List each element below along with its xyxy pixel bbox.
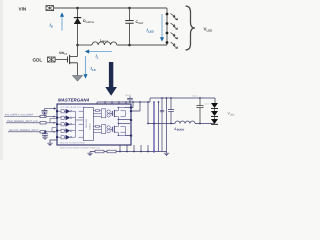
svg-text:PWM_DIMMING_INPUT_HIN: PWM_DIMMING_INPUT_HIN	[7, 120, 38, 123]
wire inductor to LEDs	[195, 123, 214, 125]
output LED D5	[211, 103, 218, 111]
cap C6 plates	[160, 110, 164, 112]
vertical net x140	[131, 102, 140, 111]
ground C1	[42, 114, 47, 116]
svg-text:GND LIN SD SENSE PGN: GND LIN SD SENSE PGND	[60, 142, 86, 145]
rail top	[150, 97, 215, 99]
ground IC left bottom	[47, 140, 57, 146]
capacitor COUT	[125, 8, 143, 45]
svg-text:VIN: VIN	[19, 7, 27, 12]
port VIN	[19, 6, 54, 12]
svg-text:VCC VDD VB HIN OUT: VCC VDD VB HIN OUT VB	[60, 106, 85, 109]
ground bottom right	[164, 152, 169, 156]
output cap C4	[197, 97, 211, 123]
IC right edge wires	[118, 108, 130, 136]
IC input buffer U1B	[58, 115, 72, 120]
bootstrap cap C5	[125, 94, 133, 103]
gate resistor RG1	[93, 110, 101, 112]
IC input buffer U1E	[58, 135, 72, 140]
wire rail riser	[149, 98, 151, 102]
node COUT bottom	[128, 44, 131, 47]
current arrow ID	[50, 12, 65, 30]
highlighted net SW purple	[153, 102, 155, 152]
rail mid	[97, 101, 150, 103]
IC bottom pin stubs	[120, 145, 148, 152]
gate resistor RG2	[93, 125, 101, 127]
svg-text:GND DT CEN SENSE1 SENSE2: GND DT CEN SENSE1 SENSE2 PGND LVG	[60, 146, 100, 149]
svg-text:VLED: VLED	[204, 27, 213, 33]
transistor SW_LS	[59, 45, 78, 76]
wire inductor to right	[117, 44, 167, 46]
LED D2	[166, 22, 178, 29]
node cap out	[199, 123, 201, 125]
wire diode column	[77, 8, 79, 45]
IC input buffer U1A	[58, 109, 72, 114]
decoupling cap C1	[42, 108, 57, 114]
sense resistor R2	[107, 150, 116, 153]
input wire 3	[8, 128, 56, 133]
inductor wire	[148, 123, 175, 125]
node A	[76, 7, 79, 10]
svg-text:CBOOT: CBOOT	[125, 94, 132, 97]
IC gate driver LS	[93, 125, 112, 134]
IC top pin stubs	[97, 102, 126, 104]
wire LED column	[166, 8, 168, 45]
current arrow ILS	[83, 56, 95, 79]
IC right pins	[130, 107, 132, 137]
wire to inductor	[78, 44, 93, 46]
svg-text:IL: IL	[96, 54, 99, 60]
LED D3	[166, 32, 178, 39]
node COUT top	[128, 7, 131, 10]
svg-text:ANALOG_DIMMING_INPUT: ANALOG_DIMMING_INPUT	[9, 129, 39, 132]
IC MASTERGAN4	[57, 97, 131, 145]
inductor LBUCK top	[92, 38, 117, 45]
port GDL	[33, 57, 56, 63]
LED D4	[166, 41, 178, 48]
output LED D7	[211, 119, 218, 124]
IC input buffer U1C	[58, 122, 72, 127]
brace VLED	[186, 6, 213, 50]
ground C2	[42, 137, 47, 139]
bottom bus	[90, 151, 167, 153]
vertical net x148	[147, 102, 149, 124]
svg-text:LOGIC: LOGIC	[89, 123, 92, 130]
svg-text:MASTERGAN4: MASTERGAN4	[58, 97, 90, 102]
wire gate	[55, 59, 67, 61]
output LED D6	[211, 111, 218, 119]
IC input buffer U1D	[58, 128, 72, 133]
inductor LBUCK bottom	[175, 121, 196, 132]
ground bottom left	[87, 152, 92, 156]
diode DCATCH	[74, 18, 94, 24]
IC GaN HEMT Q2	[110, 123, 130, 136]
vertical net x158	[158, 102, 160, 152]
vertical net x166	[166, 98, 168, 152]
vertical net x133	[131, 102, 133, 108]
IC GaN HEMT Q1	[110, 107, 130, 120]
vertical net x162	[161, 98, 163, 152]
LED D1	[166, 13, 178, 20]
filter cap C2	[42, 131, 48, 137]
ground under SW_LS	[72, 76, 82, 82]
svg-text:DRIVING: DRIVING	[85, 119, 88, 128]
big arrow	[105, 62, 117, 96]
sense resistor R1	[95, 150, 104, 153]
cap C3	[168, 97, 174, 124]
current arrow ILED	[147, 14, 165, 42]
IC left pins	[56, 110, 58, 138]
IC internal wires left	[72, 111, 84, 137]
input wire 1	[4, 114, 56, 118]
wire top rail	[54, 7, 167, 9]
IC logic block	[83, 108, 93, 141]
current arrow IL	[85, 49, 112, 59]
svg-text:GDL: GDL	[33, 58, 43, 63]
input wire 2	[6, 118, 56, 124]
node B	[76, 44, 79, 47]
svg-text:5V0_SUPPLY_VCC_INPUT: 5V0_SUPPLY_VCC_INPUT	[5, 114, 34, 117]
output LED column wire	[214, 98, 215, 124]
svg-text:ILED: ILED	[147, 28, 155, 34]
svg-text:ILS: ILS	[91, 66, 96, 72]
IC gate driver HS	[93, 109, 112, 118]
